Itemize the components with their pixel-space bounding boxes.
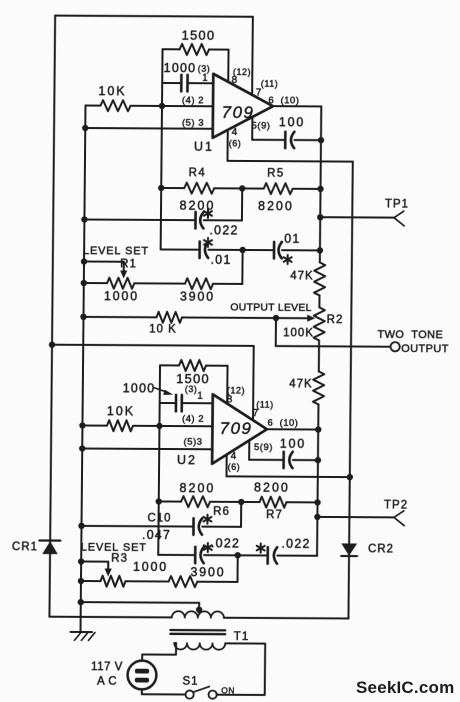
wire U2 pin4 row: [226, 455, 350, 478]
label U1: [194, 140, 214, 154]
diode CR1: [12, 540, 60, 554]
pin 5 label U2: [254, 442, 273, 453]
resistor R4 8200: [161, 167, 242, 213]
node TP2 junction: [314, 514, 320, 520]
capacitor 1000 (U1): [162, 61, 213, 92]
resistor 1500 (U2 feedback): [160, 360, 228, 387]
wire outer left rail: [49, 16, 55, 617]
svg-text:R4: R4: [189, 167, 207, 179]
svg-text:8: 8: [232, 75, 238, 86]
capacitor 100 (U2): [249, 437, 318, 469]
svg-text:1000: 1000: [123, 381, 156, 395]
capacitor 100 (U1): [252, 115, 321, 148]
label OUTPUT: [401, 343, 449, 355]
node TP1 junction: [317, 214, 323, 220]
svg-text:10K: 10K: [98, 84, 126, 98]
svg-text:OUTPUT: OUTPUT: [401, 343, 449, 355]
wire R6R7 junction drop: [240, 502, 242, 527]
svg-text:8200: 8200: [254, 481, 290, 495]
node U2 output junction: [315, 426, 321, 432]
pin 4 label U1: [229, 127, 242, 149]
svg-text:7: 7: [256, 88, 262, 99]
svg-text:R6: R6: [213, 506, 230, 518]
node 10K out rail junction: [80, 314, 86, 320]
svg-text:.022: .022: [211, 536, 240, 550]
svg-text:100: 100: [279, 115, 305, 129]
svg-text:47K: 47K: [289, 378, 313, 390]
svg-text:A C: A C: [97, 676, 117, 688]
label U2: [177, 453, 197, 467]
resistor 8200 R7: [241, 480, 318, 521]
wire bottom left row: [49, 616, 171, 619]
wire U1 pin7 feed: [251, 17, 254, 95]
svg-text:1000: 1000: [104, 289, 139, 303]
node R1 wiper rail junction: [81, 258, 87, 264]
node supply branch junction: [49, 342, 55, 348]
AC plug 117V: [127, 661, 156, 690]
svg-text:709: 709: [222, 103, 255, 122]
op-amp U2: [212, 394, 267, 464]
wire 1500 to U2 pin8: [226, 366, 228, 404]
capacitor .022 (U1): [84, 208, 242, 237]
svg-text:3900: 3900: [190, 565, 225, 579]
pin 7 label U2: [253, 400, 274, 420]
pin 3 label U2: [184, 437, 203, 448]
wire U1 box left vertical: [161, 49, 163, 249]
svg-text:CR1: CR1: [12, 541, 38, 553]
svg-text:TP1: TP1: [385, 198, 409, 210]
svg-text:6 (10): 6 (10): [267, 418, 298, 429]
pin 8 label U2: [227, 385, 245, 405]
wire far right rail: [348, 162, 352, 619]
svg-text:5(9): 5(9): [252, 121, 271, 132]
pin 3 label U1: [182, 118, 204, 129]
svg-text:5(9): 5(9): [254, 442, 273, 453]
wire plug bottom lead: [142, 689, 186, 694]
label R1: [120, 258, 137, 270]
wire output rail below R2: [318, 340, 320, 371]
svg-text:1000: 1000: [164, 61, 197, 75]
capacitor 1000 (U2): [160, 395, 213, 412]
switch S1: [185, 686, 216, 698]
node U2 8200 left junction: [156, 498, 162, 504]
svg-text:LEVEL SET: LEVEL SET: [83, 245, 149, 257]
resistor 1500 (U1 feedback): [162, 27, 228, 55]
transformer T1 secondary: [174, 643, 225, 650]
resistor 10K (output sum U1): [83, 311, 276, 336]
wire wiper drop: [275, 318, 277, 346]
wire .01 mid drop: [241, 250, 243, 284]
svg-text:C10: C10: [147, 512, 171, 524]
potentiometer R1 1000: [84, 262, 140, 304]
svg-text:SeekIC.com: SeekIC.com: [356, 678, 454, 697]
wire two tone output row: [276, 345, 391, 348]
transformer T1 core: [170, 630, 225, 634]
wire U2 supply feed row: [52, 345, 254, 346]
test point TP2: [317, 499, 408, 526]
pin 8 label U1: [232, 67, 251, 86]
svg-text:(11): (11): [256, 400, 273, 410]
node R5 right junction: [317, 186, 323, 192]
svg-text:117 V: 117 V: [91, 661, 123, 673]
pin 6 label U1: [268, 95, 299, 106]
node R1 rail junction: [81, 280, 87, 286]
svg-text:8200: 8200: [258, 199, 294, 213]
pin 1 label U1: [202, 73, 208, 84]
label 117V AC: [91, 661, 123, 688]
svg-text:1: 1: [202, 73, 208, 84]
wire U2 .022 mid drop: [236, 555, 238, 582]
svg-text:R1: R1: [120, 258, 137, 270]
wire secondary right lead: [217, 643, 266, 695]
pin 4 label U2: [228, 451, 241, 472]
wire U1 output: [273, 105, 321, 107]
svg-text:(4) 2: (4) 2: [182, 414, 204, 425]
svg-text:6 (10): 6 (10): [268, 95, 299, 106]
svg-text:(3): (3): [198, 64, 211, 74]
svg-text:100K: 100K: [283, 327, 314, 339]
op-amp U1: [213, 74, 274, 138]
wire U2 output: [267, 428, 318, 430]
wire U2 pin7 feed: [252, 346, 255, 420]
node pin4 far rail junction: [347, 474, 353, 480]
svg-text:.047: .047: [142, 528, 171, 542]
resistor 47K upper: [290, 262, 325, 295]
svg-text:10 K: 10 K: [149, 323, 177, 335]
svg-text:R3: R3: [111, 553, 128, 565]
label R3: [111, 553, 128, 565]
svg-text:3900: 3900: [180, 290, 215, 304]
label LEVEL SET (R1): [83, 245, 149, 257]
svg-text:.022: .022: [281, 537, 310, 551]
label 1000 with leader (U2): [123, 381, 174, 395]
resistor 10K (U1 input): [85, 84, 213, 112]
wire 1500 to pin8: [227, 50, 229, 82]
wire center tap row: [81, 602, 199, 613]
resistor 3900 (U2): [125, 565, 237, 588]
svg-text:(5) 3: (5) 3: [182, 118, 204, 129]
svg-text:8200: 8200: [179, 199, 215, 213]
wire inner left rail: [81, 106, 86, 633]
wire top supply rail: [55, 16, 253, 17]
wire output rail to U2: [317, 404, 318, 555]
node U2 pin3 rail junction: [79, 445, 85, 451]
resistor R5 8200: [242, 167, 321, 213]
capacitor C10 .047: [81, 512, 241, 542]
resistor 8200 R6: [159, 481, 242, 518]
svg-text:1500: 1500: [176, 371, 210, 386]
wire U2 pin3 row: [82, 448, 212, 451]
node U2 100pF junction: [315, 457, 321, 463]
resistor 47K lower: [289, 371, 324, 404]
node U2 pin2 junction: [156, 423, 162, 429]
node R3 wiper rail junction: [78, 558, 84, 564]
svg-text:4: 4: [232, 127, 238, 138]
node center tap: [196, 607, 202, 613]
pin 6 label U2: [267, 418, 298, 429]
wire U1 pin3 row: [85, 127, 213, 130]
wire wiper to output: [276, 314, 315, 321]
resistor 10K (U2 input): [82, 404, 212, 432]
node R6-R7 junction: [238, 499, 244, 505]
node U1 pin3 rail junction: [82, 125, 88, 131]
svg-text:(6): (6): [229, 138, 242, 148]
capacitor .022 right (U2): [238, 536, 318, 563]
svg-text:ON: ON: [221, 685, 235, 695]
transformer T1 primary: [172, 611, 224, 618]
label TWO TONE: [377, 329, 443, 341]
wire U2 box left vertical: [158, 365, 160, 555]
test point TP1: [320, 198, 409, 226]
svg-text:.01: .01: [210, 253, 231, 267]
svg-text:10K: 10K: [107, 404, 135, 418]
node .01 right rail junction: [317, 247, 323, 253]
node U2 pin2 rail junction: [79, 422, 85, 428]
svg-text:(6): (6): [228, 462, 241, 472]
node R3 rail junction: [78, 578, 84, 584]
svg-text:TP2: TP2: [384, 499, 408, 511]
svg-text:47K: 47K: [290, 270, 314, 282]
svg-text:TWO TONE: TWO TONE: [377, 329, 443, 341]
pin 5 label U1: [252, 121, 271, 132]
svg-text:OUTPUT LEVEL: OUTPUT LEVEL: [230, 301, 311, 313]
diode CR2: [341, 543, 394, 556]
svg-text:1: 1: [197, 391, 203, 402]
potentiometer R2 100K: [283, 307, 343, 340]
node .01 mid junction: [239, 247, 245, 253]
wire bottom right row: [224, 617, 348, 620]
pin 1 paren label U2: [185, 384, 198, 394]
label ON: [221, 685, 235, 695]
node .022 rail junction: [81, 216, 87, 222]
wire U1 pin4 row: [227, 130, 353, 162]
label T1: [234, 631, 250, 643]
pin 1 label U2: [197, 391, 203, 402]
svg-text:7: 7: [253, 408, 259, 419]
capacitor .01 left (U1): [160, 238, 242, 267]
wire output rail mid: [318, 295, 320, 307]
label OUTPUT LEVEL: [230, 301, 311, 313]
svg-text:4: 4: [231, 451, 237, 462]
svg-text:(11): (11): [261, 79, 278, 89]
svg-text:T1: T1: [234, 631, 250, 643]
terminal TWO TONE OUTPUT: [390, 342, 399, 351]
svg-text:U2: U2: [177, 453, 197, 467]
svg-text:R2: R2: [327, 314, 344, 326]
svg-text:R7: R7: [266, 509, 283, 521]
svg-text:100: 100: [280, 437, 306, 451]
node CT tap rail junction: [78, 599, 84, 605]
svg-text:R5: R5: [267, 168, 285, 180]
node R7 right junction: [314, 499, 320, 505]
node C10 rail junction: [78, 523, 84, 529]
node U1 pin2 junction: [159, 103, 165, 109]
svg-text:709: 709: [220, 419, 253, 438]
wire output rail upper: [320, 106, 321, 262]
svg-text:CR2: CR2: [368, 543, 394, 555]
svg-text:.01: .01: [279, 232, 300, 246]
node wiper takeoff junction: [273, 315, 279, 321]
pin 7 label U1: [256, 79, 279, 99]
potentiometer R3 1000: [81, 560, 168, 588]
capacitor .01 right (U1): [243, 231, 321, 264]
svg-text:8200: 8200: [180, 481, 216, 495]
svg-text:1000: 1000: [133, 560, 168, 574]
svg-text:1500: 1500: [182, 28, 216, 43]
resistor 3900 (U1): [134, 278, 242, 304]
label LEVEL SET (R3): [81, 542, 147, 554]
node R4 left junction: [158, 185, 164, 191]
svg-text:(5)3: (5)3: [184, 437, 203, 448]
node R4-R5 junction: [239, 185, 245, 191]
svg-text:S1: S1: [182, 676, 198, 688]
ground (chassis): [70, 632, 95, 640]
wire R4R5 junction drop: [241, 188, 243, 220]
wire secondary left lead: [142, 643, 176, 661]
capacitor .022 left (U2): [158, 536, 240, 563]
svg-text:.022: .022: [209, 223, 238, 237]
node U2 .022 mid junction: [235, 552, 241, 558]
svg-text:(4) 2: (4) 2: [182, 95, 204, 106]
pin 2 label U1: [182, 95, 204, 106]
node 100pF junction U1: [318, 137, 324, 143]
pin 2 label U2: [182, 414, 204, 425]
label S1: [182, 676, 198, 688]
svg-text:U1: U1: [194, 140, 214, 154]
